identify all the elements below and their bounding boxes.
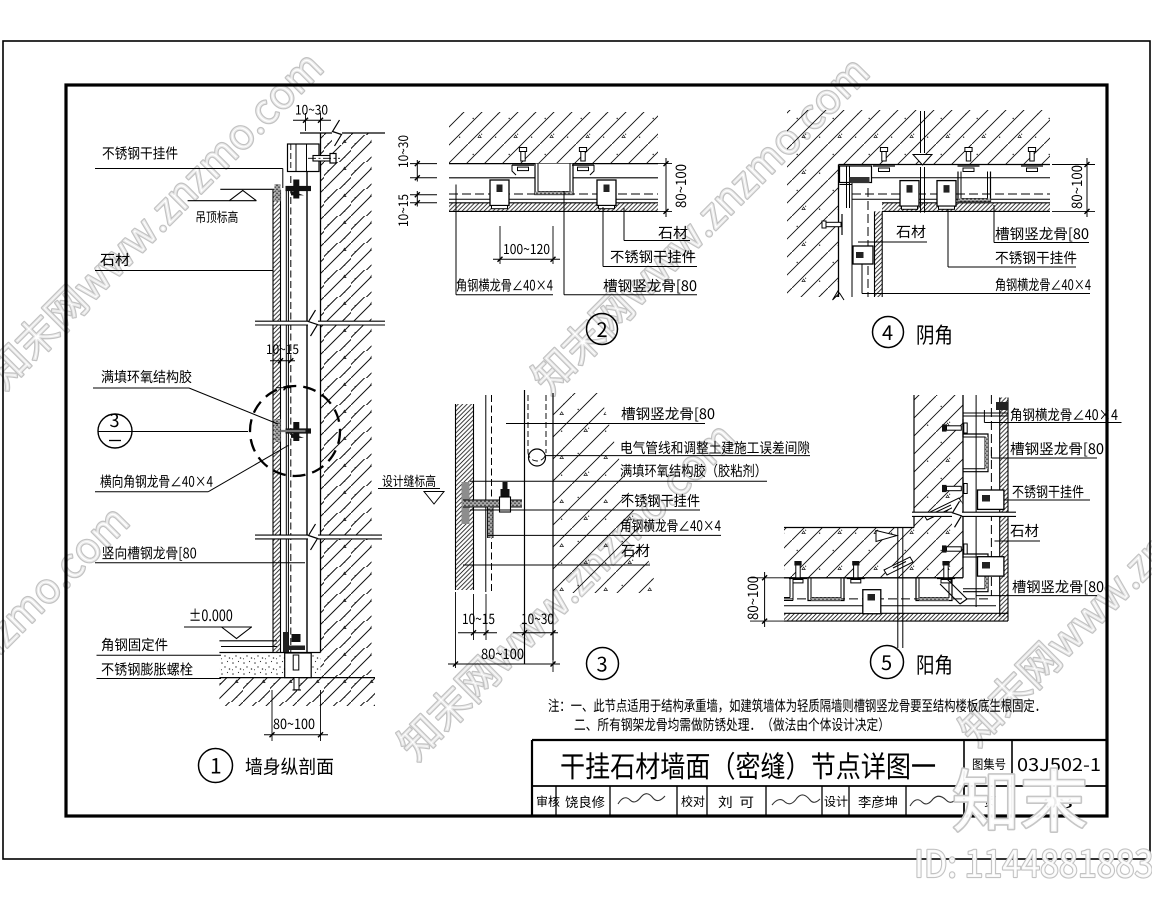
detail4 ceiling stone band (882, 203, 1050, 212)
detail3 label 槽钢竖龙骨[80 (621, 407, 714, 422)
detail1 floor embed box (285, 653, 312, 678)
detail4 wall bolt (826, 222, 841, 226)
detail1 title 墙身纵剖面 (246, 757, 333, 775)
detail5 bolt right c (947, 547, 962, 551)
detail4 hanger plate a (900, 181, 919, 207)
detail3 circle 3 (587, 648, 619, 680)
detail5 bolt bottom a (796, 565, 800, 578)
detail4 ceiling dashed (852, 193, 1050, 195)
detail3 dim 10~15 line (458, 632, 497, 634)
detail4 wall hanger plate (853, 246, 873, 264)
detail2 stone bottom line (449, 210, 658, 212)
detail1 detail circle dashed (250, 386, 340, 476)
detail1 label 满填环氧结构胶 (102, 370, 192, 383)
detail1 embed bolt shaft (293, 655, 299, 670)
detail5 dim 80~100 ext (750, 577, 790, 579)
detail1 top bracket inner line b (306, 144, 308, 172)
detail4 anchor bolt a (882, 151, 886, 162)
detail1 cavity line a (285, 190, 287, 653)
detail1 label 竖向槽钢龙骨 leader (95, 562, 305, 564)
detail2 rot dim 10~15 (398, 195, 408, 226)
note line 2 (575, 717, 882, 731)
signature 1 (618, 794, 665, 804)
note line 1 (548, 698, 1038, 712)
detail5 label 石材 leader (995, 540, 1041, 542)
title block divider number left (1011, 740, 1013, 786)
detail2 anchor bolt right (581, 151, 585, 162)
detail3 line a (485, 395, 487, 592)
detail5 break mark horiz leg (884, 557, 913, 575)
detail1 label 石材 leader (95, 270, 273, 272)
detail2 slab soffit line (449, 163, 658, 165)
detail5 bolt right b (947, 486, 962, 490)
watermark ID: 1144881883 (917, 849, 1151, 877)
detail1 dim 10~15 line2 (276, 387, 291, 389)
detail2 dashed centerline (449, 193, 658, 195)
detail1 channel steel front line (306, 172, 308, 653)
detail1 wall face line (320, 133, 322, 653)
detail4 corner box inner v (846, 166, 848, 208)
detail3 dim 10~15 text (463, 614, 494, 625)
detail4 dim 80~100 line (1086, 158, 1088, 217)
detail1 top anchor bolt axis (308, 157, 340, 159)
detail3 label 石材 (621, 544, 649, 557)
detail5 rod double line (897, 528, 899, 649)
detail1 wall top break zigzag (332, 121, 342, 145)
detail5 label 槽钢竖 leader b (976, 595, 1097, 597)
title block row divider (706, 786, 708, 816)
detail2 dim 100~120 (493, 258, 560, 260)
detail1 label ±0.000 (191, 609, 233, 622)
detail5 circle 5 (871, 646, 904, 679)
detail5 right line2 (975, 395, 977, 607)
detail3 label 石材 leader (463, 564, 650, 566)
detail3 label 电气管线和调整土建施工误差间隙 (622, 441, 810, 454)
detail2 anchor bracket right (572, 164, 594, 166)
detail3 stone panel (456, 404, 474, 590)
detail1 center dashed line (290, 176, 292, 653)
detail1 stone panel (273, 190, 281, 653)
detail1 dim 10~30 text (296, 105, 327, 115)
diagonal watermarks 知末网www.znzmo.com (0, 47, 326, 392)
detail4 label 角钢横龙骨 leader (861, 264, 863, 294)
detail5 label 石材 (1010, 524, 1038, 537)
detail1 floor slab dots band (219, 653, 320, 678)
detail5 top angle dark (996, 402, 1008, 410)
detail5 rod triangle (876, 531, 897, 542)
detail1 label 石材 (100, 253, 129, 266)
detail2 circle 2 (587, 314, 618, 345)
inner drawing frame (66, 85, 1107, 816)
detail1 label 吊顶标高 (197, 211, 238, 223)
detail1 level triangle floor (222, 627, 252, 639)
detail1 floor finish line (219, 640, 277, 642)
detail4 wall stone band (875, 211, 883, 297)
detail1 stone outer face (272, 190, 274, 653)
title block divider 图集号 left (963, 740, 965, 816)
title block row divider (555, 786, 557, 816)
detail3 channel line (524, 390, 526, 664)
detail2 label 不锈钢干挂件 (611, 250, 696, 263)
detail5 concrete hatch L (784, 395, 963, 578)
detail3 设计缝标高 line (378, 488, 440, 490)
detail5 hanger plate right a (978, 490, 1004, 509)
detail2 dim 80~100 line (665, 158, 667, 217)
detail2 hanger plate left (490, 180, 509, 206)
detail3 label 不锈钢 leader (470, 509, 700, 511)
title block row divider (676, 786, 678, 816)
detail1 label 不锈钢膨胀螺栓 (102, 662, 193, 675)
detail2 channel gray bottom (535, 192, 573, 195)
detail5 hanger plate right b (978, 557, 1004, 576)
title block row divider (905, 786, 907, 816)
title block row divider (765, 786, 767, 816)
detail3 label 电气管线 leader (546, 455, 811, 457)
detail2 label 槽钢竖龙骨 leader (563, 192, 565, 295)
detail4 wall dashed (867, 188, 869, 297)
detail4 label 槽钢竖龙骨 leader (993, 205, 995, 243)
detail3 angle leg hatched (488, 507, 494, 538)
detail2 rail bottom line (449, 198, 658, 200)
detail4 dim 80~100 ext (1052, 164, 1095, 166)
title row 校对 (681, 795, 704, 807)
title row 饶良修 (565, 796, 604, 809)
detail3 conduit dashed U (527, 395, 529, 452)
detail5 bottom stone (784, 613, 1008, 621)
detail4 ceiling rail bottom (852, 198, 1050, 200)
detail3 label 角钢横 leader (488, 534, 721, 536)
title row 李彦坤 (858, 796, 896, 809)
detail2 rot dim 10~30 (398, 136, 408, 167)
detail1 label 角钢固定件 leader (97, 654, 222, 656)
signature 3 (910, 796, 956, 806)
detail5 right stone (1000, 398, 1008, 617)
detail3 label 设计缝标高 (382, 475, 435, 488)
detail1 stone inner face (280, 190, 282, 653)
detail1 dim 80~100 line (264, 734, 328, 736)
detail1 floor structure line (221, 646, 277, 648)
detail4 wall bottom break (833, 290, 845, 300)
detail1 floor slab top line (219, 652, 320, 654)
detail4 hanger plate b (937, 181, 956, 207)
detail1 label 角钢固定件 (102, 638, 168, 652)
detail4 label 不锈钢干挂件 leader (947, 210, 949, 268)
detail2 channel steel outline (535, 164, 573, 195)
detail3 conduit circle (529, 449, 546, 466)
title block outline (532, 739, 1107, 741)
detail1 label 不锈钢膨胀螺栓 leader (97, 678, 222, 680)
detail1 expansion bolt below (294, 678, 299, 690)
title main 干挂石材墙面（密缝）节点详图一 (561, 752, 935, 780)
detail1 dim 10~30 line (293, 119, 331, 121)
detail2 label 石材 leader (623, 208, 625, 241)
detail1 base angle dark piece (283, 632, 288, 652)
detail5 bottom line2 (784, 605, 996, 607)
detail3 dim 80~100 text (482, 649, 524, 660)
detail3 bolt assembly (501, 489, 510, 497)
detail4 ceiling channel (958, 172, 991, 202)
detail3 label 满填环氧结构胶（胶粘剂） (621, 464, 759, 478)
detail5 right dashed (990, 395, 992, 596)
detail3 wall face line (552, 393, 554, 660)
detail5 bolt bottom b (854, 565, 858, 578)
detail2 dim 80~100 ext (655, 163, 672, 165)
detail4 corner channel box (840, 166, 872, 183)
detail2 stone band (449, 203, 658, 212)
detail1 label 横向角钢龙骨 leader (95, 491, 208, 493)
title block row divider (963, 786, 965, 816)
detail5 label 不锈钢干挂件 (1013, 485, 1084, 498)
title block 03J502-1 (1018, 758, 1100, 771)
detail5 break line right (912, 512, 1016, 516)
title row 页 (985, 796, 996, 807)
detail5 corner diagonal piece (940, 579, 967, 604)
detail1 concrete wall hatch (321, 133, 372, 678)
detail2 label 槽钢竖龙骨[80 (603, 279, 696, 294)
detail1 epoxy anchor blob mid (275, 419, 281, 442)
detail1 stainless hanger top (286, 186, 312, 191)
title block row divider (821, 786, 823, 816)
detail1 stainless hanger mid (286, 428, 312, 433)
detail5 label 角钢横 leader (983, 410, 985, 423)
detail1 top bracket box (288, 144, 320, 172)
title block row divider (848, 786, 850, 816)
detail2 label 角钢横龙骨 leader (455, 185, 457, 295)
detail1 title circle 1 (199, 749, 233, 783)
detail5 right channel a (963, 434, 988, 472)
detail3 label 槽钢竖龙骨 leader (506, 423, 705, 425)
detail2 dim 100~120 text (504, 244, 549, 254)
detail5 title 阳角 (918, 654, 951, 674)
detail4 label 不锈钢干挂件 (996, 251, 1077, 264)
detail2 anchor bolt left (521, 151, 525, 162)
detail4 rod triangle mark (913, 155, 932, 166)
detail1 dim 80~100 text (274, 719, 315, 730)
detail4 anchor bolt c (1030, 151, 1034, 162)
detail5 bottom channel b (916, 579, 952, 601)
detail1 ceiling level upper line (220, 188, 274, 190)
detail5 bolt right a (947, 426, 962, 430)
detail5 right channel b (963, 554, 988, 592)
title block row divider (609, 786, 611, 816)
detail1 top bracket inner line a (295, 144, 297, 172)
detail5 dim 80~100 line (764, 572, 766, 627)
detail2 stone top line (449, 202, 658, 204)
detail4 anchor bolt b (966, 151, 970, 162)
detail1 label 不锈钢干挂件 leader (95, 168, 283, 170)
detail5 break mark vert leg (924, 498, 962, 520)
detail1 label 横向角钢龙骨∠40×4 (100, 474, 212, 487)
detail1 epoxy anchor blob top (275, 184, 281, 202)
detail3 dashed line (491, 395, 493, 592)
detail2 label 角钢横龙骨∠40×4 (457, 278, 553, 291)
detail4 wall line2 (851, 178, 853, 297)
detail5 hanger plate bottom (863, 590, 881, 614)
detail4 ceiling line2 (846, 177, 1050, 179)
detail5 label 槽钢竖龙骨[80 a (1010, 442, 1103, 457)
detail1 label 满填环氧结构胶 leader (93, 387, 189, 389)
detail1 wall top cut line (300, 132, 385, 134)
detail5 label 槽钢竖龙骨[80 b (1012, 580, 1103, 595)
detail4 label 角钢横龙骨∠40×4 (996, 278, 1091, 291)
detail2 dim 80~100 text (676, 165, 687, 208)
detail1 dim 10~30 ext b (320, 113, 322, 131)
detail3 设计缝标高 triangle (424, 492, 444, 505)
detail1 dim 10~15 line (270, 360, 295, 362)
detail3 label 不锈钢干挂件 (622, 494, 700, 507)
detail5 partial channel left edge (784, 579, 793, 601)
detail2 slab hatch (449, 112, 658, 164)
detail1 label 竖向槽钢龙骨[80 (102, 546, 196, 561)
detail1 top anchor bolt head (330, 154, 336, 164)
detail1 label 不锈钢干挂件 (103, 146, 178, 159)
detail1 dim 10~30 ext a (305, 113, 307, 131)
detail1 ceiling level triangle (229, 190, 256, 200)
detail2 anchor bracket left (512, 164, 534, 166)
detail4 concrete hatch L (787, 110, 1050, 297)
detail2 rot dim 10~30 lines (410, 163, 437, 165)
detail3 dim ext lines (455, 592, 457, 668)
detail4 title 阴角 (918, 324, 951, 344)
title row 设计 (825, 796, 848, 808)
title block row divider (1011, 786, 1013, 816)
detail4 label 石材 leader (858, 241, 927, 243)
detail2 rot dim 10~15 lines (410, 194, 437, 196)
detail1 subgrade hatch (219, 678, 375, 706)
detail2 line2 (449, 177, 658, 179)
title block 图集号 (973, 758, 1005, 770)
detail2 label 不锈钢干挂件 leader (602, 207, 604, 267)
detail2 channel steel web (535, 164, 573, 195)
detail5 bottom channel a (808, 579, 844, 601)
detail4 wall face line (838, 165, 840, 298)
detail1 break line lower (255, 535, 382, 539)
detail1 dim 80~100 ext (271, 690, 273, 741)
detail1 label ±0.000 line (184, 626, 252, 628)
detail3 label 满填 leader (470, 480, 767, 482)
detail1 hanger mid gray arm (281, 430, 306, 432)
watermark big 知末 logo (954, 769, 1086, 832)
title row page 08 (1044, 796, 1071, 808)
detail4 dim 80~100 text (1072, 166, 1083, 209)
detail5 wall inner vert line (913, 395, 915, 528)
detail4 soffit line (839, 164, 1051, 166)
detail4 corner angle lip (840, 184, 853, 186)
detail4 circle 4 (873, 317, 904, 348)
detail1 cavity line b (287, 190, 289, 653)
detail5 dim 80~100 text (748, 577, 759, 620)
detail5 label 槽钢竖 leader a (990, 450, 992, 458)
detail5 wall inner horiz line (784, 527, 914, 529)
detail3 dim 10~30 text (522, 614, 553, 625)
detail5 bolt bottom c (944, 565, 948, 578)
detail5 wall outer vert line (962, 395, 964, 578)
detail2 hanger plate right (597, 180, 616, 206)
signature 2 (772, 795, 820, 805)
detail4 hanger rod double line (920, 111, 922, 153)
detail3 dim 10~30 line (513, 632, 558, 634)
detail4 label 槽钢竖龙骨[80 (995, 227, 1088, 242)
detail1 floor slab bottom line (219, 677, 375, 679)
detail2 label 石材 (658, 226, 687, 239)
title row 刘可 (719, 796, 754, 808)
title row 审核 (537, 795, 560, 807)
detail5 label 角钢横龙骨∠40×4 (1011, 408, 1118, 421)
detail3 label 角钢横龙骨∠40×4 (621, 519, 721, 532)
detail3 hanger arm gray (463, 500, 522, 507)
detail4 label 石材 (896, 225, 925, 238)
detail1 top anchor bolt shaft (313, 156, 330, 162)
detail1 section mark circle 3 (98, 414, 132, 448)
detail5 wall outer horiz line (784, 577, 963, 579)
detail1 ceiling level lower line (188, 200, 257, 202)
detail1 top bracket dashed (290, 144, 292, 172)
detail3 concrete hatch (553, 393, 658, 593)
detail5 label 不锈钢 leader (1004, 499, 1090, 501)
detail1 break line upper (255, 321, 385, 325)
detail5 bottom dashed (784, 598, 991, 600)
detail3 dim 80~100 line (448, 663, 560, 665)
detail4 corner angle dark (850, 177, 870, 183)
detail3 anchor bar gray (462, 482, 470, 524)
detail1 dim 10~15 text (267, 344, 298, 354)
